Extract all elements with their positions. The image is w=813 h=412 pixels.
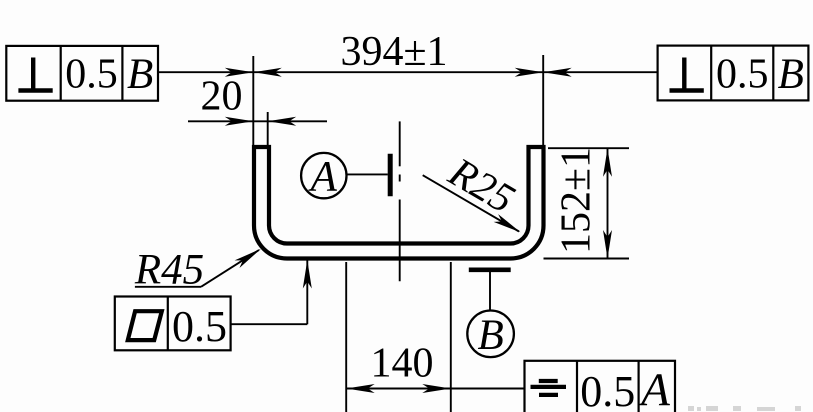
extension line top of 152 — [548, 147, 629, 149]
svg-text:A: A — [638, 364, 670, 412]
radius R45 underline — [135, 286, 201, 288]
leader arrow left frame — [225, 68, 254, 77]
datum B leader — [489, 272, 491, 311]
datum A target bar on centerline — [388, 154, 393, 196]
dimension 20 line — [188, 120, 327, 122]
dimension 152±1 down arrow — [603, 230, 612, 259]
datum A balloon circle — [301, 153, 346, 198]
extension line right (outer face, x=543) — [542, 55, 544, 147]
radius R25 leader — [423, 175, 519, 231]
svg-text:A: A — [308, 153, 338, 200]
flatness leader horizontal — [231, 323, 308, 325]
perpendicularity symbol right — [670, 58, 704, 91]
dimension 394±1 left arrow — [253, 68, 281, 77]
symmetry symbol three bars — [531, 381, 567, 395]
dimension 394±1 right arrow — [515, 68, 544, 77]
flatness leader arrow — [303, 260, 312, 289]
extension line 140 right — [450, 262, 452, 412]
extension line left (outer face, x=253) — [252, 56, 254, 146]
centerline (vertical chain line of part axis) — [399, 121, 401, 281]
dimension 20 left arrow — [225, 117, 254, 126]
FCF symmetry box — [525, 361, 676, 412]
datum B balloon circle — [467, 311, 514, 358]
datum B target bar under bottom face — [469, 267, 511, 272]
FCF perpendicularity right box — [658, 46, 809, 101]
svg-text:152±1: 152±1 — [554, 147, 600, 254]
radius R45 arrow — [235, 245, 264, 268]
perpendicularity symbol left — [18, 58, 52, 91]
svg-text:0.5: 0.5 — [716, 52, 769, 98]
svg-text:B: B — [477, 312, 503, 359]
extension line 140 left — [345, 262, 347, 412]
svg-text:140: 140 — [371, 341, 434, 387]
FCF flatness box — [115, 297, 231, 351]
flatness symbol parallelogram — [128, 311, 162, 340]
dimension 140 left arrow — [346, 384, 375, 393]
datum A leader — [346, 173, 387, 175]
svg-text:0.5: 0.5 — [172, 302, 227, 351]
dimension 140 line and leader into symmetry frame — [346, 388, 524, 390]
leader arrow right frame — [543, 68, 572, 77]
svg-text:B: B — [778, 51, 804, 98]
dimension 20 right arrow — [268, 117, 297, 126]
dimension 152±1 up arrow — [603, 148, 612, 177]
svg-text:B: B — [127, 51, 153, 98]
svg-text:0.5: 0.5 — [65, 52, 118, 98]
leader from left perpendicularity frame — [158, 71, 253, 73]
leader from right perpendicularity frame — [543, 71, 658, 73]
flatness leader vertical — [306, 260, 308, 325]
dimension 394±1 line — [253, 71, 543, 73]
svg-text:394±1: 394±1 — [340, 29, 447, 75]
svg-text:20: 20 — [201, 74, 243, 120]
part outline U-channel (thick profile) — [254, 147, 544, 259]
radius R25 arrow — [494, 214, 523, 236]
svg-text:0.5: 0.5 — [580, 367, 635, 412]
FCF perpendicularity left box — [6, 46, 158, 101]
dimension 152±1 line — [607, 148, 609, 258]
extension line bottom of 152 — [544, 258, 630, 260]
dimension 140 right arrow — [422, 384, 451, 393]
radius R45 leader — [201, 250, 259, 287]
faint watermark remnant bottom right — [688, 406, 801, 411]
extension line inner face (x=268) — [267, 112, 269, 146]
